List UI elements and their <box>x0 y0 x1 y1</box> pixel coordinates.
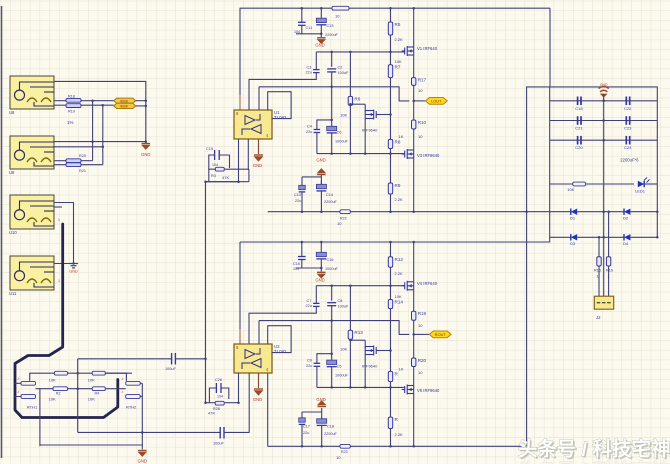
wire cap bank center vertical <box>603 94 605 300</box>
svg-text:1: 1 <box>58 279 60 283</box>
svg-text:R12: R12 <box>395 257 404 262</box>
sheet border left <box>1 6 3 458</box>
watermark text <box>518 437 670 464</box>
thermistor RT1a <box>21 381 36 385</box>
power symbol red top <box>599 87 609 92</box>
svg-text:104: 104 <box>212 163 218 167</box>
diode D2 <box>604 211 624 213</box>
thermistor RT2a <box>21 395 36 399</box>
cap bank row 3 wire <box>550 139 658 141</box>
wire C2 column down <box>331 87 333 127</box>
capacitor C3 22u in series <box>315 52 317 70</box>
wire RT row1 mid <box>68 372 93 374</box>
svg-text:10: 10 <box>418 323 423 328</box>
capacitor bank C23 <box>625 116 627 125</box>
wire R17 to LOUT node <box>413 85 415 120</box>
wire V6 source to rail <box>413 394 415 446</box>
wire U2 vcc pin colored segment <box>239 329 241 344</box>
svg-text:C22: C22 <box>624 106 632 111</box>
svg-text:RTH2: RTH2 <box>126 405 137 410</box>
ground GND mid cluster <box>317 169 326 175</box>
wire node y387.4 <box>317 386 403 388</box>
wire RT network top row <box>102 372 132 374</box>
svg-text:10: 10 <box>335 14 340 19</box>
wire R19 to RN2 <box>81 104 114 106</box>
resistor RN 10K b <box>92 371 105 375</box>
wire U2 pin2 down to cap rail <box>248 373 250 432</box>
resistor R20 small <box>66 159 81 163</box>
svg-text:R23: R23 <box>341 450 348 454</box>
resistor R7 10K <box>388 65 392 78</box>
svg-text:U8: U8 <box>9 110 15 115</box>
resistor R13 10K vertical <box>348 330 352 339</box>
ground U1 GND red <box>254 155 263 161</box>
capacitor C26 feedback <box>209 388 228 403</box>
capacitor C14 2200uF <box>320 180 322 184</box>
wire U1 pin4 gnd <box>258 139 260 154</box>
wire U2 pin2 up <box>248 313 250 344</box>
svg-text:C2: C2 <box>338 66 343 70</box>
op-amp U2 TL082 <box>234 344 287 373</box>
wire V5 source down <box>364 355 366 388</box>
svg-text:C18: C18 <box>327 425 334 429</box>
wire U1 vcc pin colored segment <box>239 95 241 110</box>
svg-text:D4: D4 <box>623 241 629 246</box>
wire U2 pin4 down gnd <box>258 373 260 388</box>
svg-text:22u: 22u <box>306 364 312 368</box>
wire RT1a left leads <box>15 382 21 384</box>
wire U2 pin3 up <box>258 321 260 344</box>
svg-text:1K: 1K <box>399 134 404 139</box>
capacitor bank C18 <box>577 97 579 106</box>
wire V2 drain link <box>350 103 365 105</box>
svg-text:C4: C4 <box>307 125 312 129</box>
svg-text:TL082: TL082 <box>274 115 287 120</box>
svg-text:10K: 10K <box>395 294 402 299</box>
capacitor C6 1000uF electrolytic <box>327 126 337 130</box>
svg-text:GND: GND <box>138 459 147 464</box>
wire opto2 second <box>54 146 103 148</box>
capacitor bank C22 <box>625 97 627 106</box>
second rail wire <box>240 241 550 243</box>
capacitor C16 electrolytic <box>320 242 322 252</box>
capacitor C2 100uF in series <box>331 52 333 67</box>
svg-text:400K: 400K <box>120 105 129 109</box>
wire V1 gate rail y52 <box>316 51 404 53</box>
svg-text:GND: GND <box>141 152 150 157</box>
resistor R15b 1K <box>388 371 392 381</box>
svg-text:10K: 10K <box>88 378 95 383</box>
svg-text:104: 104 <box>217 395 223 399</box>
wire rail corner down to U1 <box>239 8 241 110</box>
resistor R18 small <box>66 98 81 102</box>
resistor RN 10K a <box>54 371 67 375</box>
wire RN to vertical <box>136 100 146 102</box>
svg-text:R18: R18 <box>68 95 75 99</box>
wire opto4 top <box>54 263 74 265</box>
wire U1 pin3 up <box>258 87 260 110</box>
wire V4 drain to rail2 <box>413 242 415 282</box>
capacitor C13 electrolytic 2200uF <box>320 8 322 18</box>
svg-text:10K: 10K <box>340 347 347 352</box>
svg-text:C6: C6 <box>337 131 342 135</box>
svg-text:C18: C18 <box>575 106 583 111</box>
net label ROUT <box>414 333 429 335</box>
ground dark opto3 <box>69 264 78 268</box>
svg-text:GND: GND <box>69 270 78 274</box>
svg-text:R13: R13 <box>354 330 363 335</box>
wire feedback2 long y320.6 <box>259 320 399 322</box>
resistor R21 small <box>66 163 81 167</box>
svg-text:100uF: 100uF <box>213 442 224 446</box>
svg-text:R8: R8 <box>395 139 401 144</box>
wire C9 top link <box>317 353 332 355</box>
wire R9 to rail <box>390 194 392 212</box>
resistor R8 1K <box>388 139 392 148</box>
svg-text:C19: C19 <box>206 147 213 151</box>
op-amp U1 TL082 <box>234 110 287 139</box>
svg-text:R20: R20 <box>79 154 86 158</box>
wire opto2 top long <box>54 141 146 143</box>
resistor R6 10K vertical <box>348 96 352 105</box>
svg-text:R2: R2 <box>56 392 61 396</box>
svg-text:R20: R20 <box>418 358 427 363</box>
resistor R9 2.2K lower <box>388 183 392 194</box>
wire cap bottom to U2 pin <box>224 431 249 433</box>
wire R6 feed <box>349 52 351 97</box>
wire opto1 top to gnd corner <box>54 81 146 141</box>
resistor R1 1R series top rail <box>332 6 349 10</box>
svg-text:R15: R15 <box>594 269 601 273</box>
wire R12 down <box>390 267 392 299</box>
svg-text:J2: J2 <box>596 315 601 320</box>
wire V4 gate rail y285.7 <box>316 285 404 287</box>
wire feedback long y86.8 <box>259 86 399 88</box>
svg-text:R16: R16 <box>606 269 613 273</box>
resistor R12 2.2K <box>390 242 392 257</box>
wire R18 to RN1 <box>81 100 114 102</box>
svg-text:10: 10 <box>418 88 423 93</box>
wire R5 to R7 <box>390 35 392 65</box>
svg-text:2200uF: 2200uF <box>324 432 338 436</box>
wire V1 source down <box>413 55 415 78</box>
wire opto2 emitters <box>54 160 66 162</box>
wire vertical R19 chain down <box>102 106 104 165</box>
svg-text:U10: U10 <box>9 230 17 235</box>
wire C15 C16 bottoms <box>296 267 321 269</box>
resistor RN1 400K yellow <box>114 98 136 103</box>
optocoupler U10 <box>9 195 54 235</box>
svg-text:LED1: LED1 <box>635 189 646 194</box>
svg-text:1000uF: 1000uF <box>335 374 349 378</box>
svg-text:GND: GND <box>315 278 324 283</box>
ground GND opto right <box>142 144 151 150</box>
mid rail wire <box>268 211 340 213</box>
capacitor bank C24 <box>625 136 627 145</box>
wire U2 pin3 down to rail <box>267 373 269 446</box>
svg-text:2.2K: 2.2K <box>395 432 404 437</box>
resistor R16b 2.2K <box>388 417 392 428</box>
ground GND top filter <box>320 34 322 37</box>
svg-text:R7: R7 <box>395 65 401 70</box>
svg-text:47K: 47K <box>208 411 215 416</box>
bottom negative rail <box>268 445 340 447</box>
capacitor C7 22u in series <box>315 286 317 304</box>
resistor R19 small <box>66 104 81 108</box>
wire R16b to rail <box>390 429 392 446</box>
thermistor RT2b right <box>126 395 141 399</box>
svg-text:-t: -t <box>17 390 19 394</box>
svg-text:22u: 22u <box>306 304 312 308</box>
svg-text:400K: 400K <box>120 99 129 103</box>
svg-text:100uF: 100uF <box>338 71 349 75</box>
wire V2 source down <box>364 119 366 154</box>
wire R6 bottom to node <box>349 105 351 153</box>
cap bank bottom jog <box>527 237 550 242</box>
connector J2 speaker <box>594 296 613 309</box>
resistor R19b 0.1 <box>412 311 416 320</box>
wire feedback2 node <box>206 402 216 404</box>
capacitor C5 1000uF electrolytic <box>327 360 337 364</box>
mosfet V5 IRF9640 mirrored <box>365 346 379 356</box>
wire V1 drain to rail <box>413 8 415 47</box>
svg-text:22u: 22u <box>303 431 309 435</box>
mosfet V2 IRF9640 mirrored <box>365 110 379 120</box>
svg-text:TL082: TL082 <box>274 349 287 354</box>
capacitor C31 100uF series bottom <box>219 427 221 439</box>
svg-text:R19: R19 <box>418 311 427 316</box>
svg-text:V3 IRF9640: V3 IRF9640 <box>417 153 440 158</box>
svg-text:C5: C5 <box>337 365 342 369</box>
svg-text:C17: C17 <box>303 425 310 429</box>
wire V6 gate net <box>403 386 405 388</box>
svg-text:10K: 10K <box>88 397 95 402</box>
svg-text:C9: C9 <box>307 359 312 363</box>
svg-text:1000uF: 1000uF <box>325 267 339 271</box>
resistor R17 0.1 <box>412 78 416 86</box>
capacitor C19 feedback <box>209 155 230 182</box>
svg-text:R14: R14 <box>395 300 404 305</box>
svg-text:22u: 22u <box>295 199 301 203</box>
svg-text:-t: -t <box>121 377 123 381</box>
wire opto3 stub <box>54 206 62 208</box>
svg-text:C24: C24 <box>624 145 632 150</box>
wire U1 pin3 down <box>247 139 249 170</box>
svg-text:2200uF: 2200uF <box>325 33 339 37</box>
svg-text:D3: D3 <box>570 241 576 246</box>
svg-text:C16: C16 <box>327 258 334 262</box>
ground U2 GND red <box>254 389 263 395</box>
svg-text:2200uF: 2200uF <box>324 200 338 204</box>
svg-text:10K: 10K <box>49 378 56 383</box>
optocoupler U8 top <box>9 76 54 115</box>
wire V2 gate to divider <box>376 114 390 116</box>
capacitor bank C20 <box>577 136 579 145</box>
resistor R15 <box>597 257 601 266</box>
diode D1 <box>550 211 571 213</box>
resistor R5 2.2K <box>390 8 392 22</box>
resistor R14 10K <box>388 300 392 309</box>
svg-text:R4: R4 <box>95 392 100 396</box>
wire top rail <box>240 7 550 9</box>
wire C8 column down <box>331 321 333 361</box>
wire inverting input2 y313 <box>249 312 316 314</box>
svg-text:10: 10 <box>418 370 423 375</box>
wire R16 feed <box>608 212 610 257</box>
svg-text:V4 IRF640: V4 IRF640 <box>417 281 438 286</box>
wire U1 pin1 down to feedback <box>206 139 239 182</box>
wire R13 feed <box>349 286 351 331</box>
optocoupler U9 <box>9 136 54 175</box>
capacitor C15 filter <box>301 242 303 257</box>
svg-text:R9: R9 <box>395 183 401 188</box>
svg-text:R21: R21 <box>79 169 86 173</box>
svg-text:1: 1 <box>597 275 599 279</box>
wire V4 source down <box>413 290 415 311</box>
svg-text:R19: R19 <box>68 110 75 114</box>
thick bus wire from opto3 <box>15 224 118 418</box>
optocoupler U11 <box>9 256 54 296</box>
wire opto1 emitter1 <box>54 100 66 102</box>
bottom negative rail left segment <box>40 444 142 446</box>
svg-text:C3: C3 <box>307 66 312 70</box>
wire R15 feed <box>598 237 600 256</box>
resistor R20b 0.1 <box>412 358 416 367</box>
wire opto1 emitter2 <box>54 104 66 106</box>
wire U1 output loop to pin6 <box>268 92 291 119</box>
svg-text:-t: -t <box>121 390 123 394</box>
wire R19b to ROUT <box>413 320 415 358</box>
wire 100uF bottom feed <box>78 431 221 433</box>
wire U2 output loop to pin6 <box>268 326 291 353</box>
svg-text:C11: C11 <box>306 26 313 30</box>
svg-text:R3: R3 <box>211 174 216 178</box>
svg-text:RTH1: RTH1 <box>27 405 38 410</box>
svg-text:2.2K: 2.2K <box>395 37 404 42</box>
svg-text:头条号 / 科技宅神: 头条号 / 科技宅神 <box>518 437 670 460</box>
svg-text:2.2K: 2.2K <box>395 271 404 276</box>
svg-text:2200uF*6: 2200uF*6 <box>620 158 639 163</box>
wire inverting input y79 <box>249 78 316 80</box>
wire U1 pin2 up <box>248 79 250 110</box>
mosfet V6 IRF9640 <box>402 385 414 395</box>
wire V3 gate net <box>403 153 405 155</box>
wire V5 drain link <box>350 339 365 341</box>
wire network to bottom rail left <box>39 389 41 446</box>
wire R14 down <box>390 309 392 372</box>
capacitor C18 2200uF <box>317 419 327 423</box>
wire row1 right corner <box>105 373 126 380</box>
resistor R28 47K feedback2 <box>215 401 224 405</box>
svg-text:10K: 10K <box>49 397 56 402</box>
wire feedback drop to LOUT node <box>399 87 409 101</box>
svg-text:GND: GND <box>253 163 262 168</box>
svg-text:C26: C26 <box>215 378 222 382</box>
cap bank row 1 wire <box>550 100 658 102</box>
svg-text:100uF: 100uF <box>165 367 176 371</box>
svg-text:10K: 10K <box>340 113 347 118</box>
wire rail2 corner down to U2 <box>239 242 241 344</box>
wire C4 top link <box>317 119 332 121</box>
svg-text:1000uF: 1000uF <box>335 140 349 144</box>
svg-text:10: 10 <box>337 221 342 226</box>
resistor R23 1R series bottom rail <box>340 444 350 448</box>
svg-text:头条号 / 科技宅神: 头条号 / 科技宅神 <box>518 460 670 464</box>
svg-text:U11: U11 <box>9 291 17 296</box>
svg-text:10K: 10K <box>567 187 574 192</box>
wire V5 gate to divider <box>376 350 390 352</box>
wire U2 pin1 down to feedback <box>238 373 240 403</box>
svg-text:10: 10 <box>336 455 341 460</box>
wire feedback2 drop to ROUT node <box>399 321 409 335</box>
wire 100uF top feed <box>78 358 172 360</box>
svg-text:R6: R6 <box>354 96 360 101</box>
wire cap to vert205 <box>175 358 205 360</box>
wire V4 gate <box>404 285 406 287</box>
mosfet V1 IRF640 <box>402 46 414 56</box>
wire R8 down <box>390 149 392 184</box>
diode D4 <box>604 236 624 238</box>
svg-text:C7: C7 <box>307 299 312 303</box>
wire R15b down <box>390 382 392 418</box>
wire R20b to V6 <box>413 367 415 386</box>
svg-text:V1 IRF640: V1 IRF640 <box>417 46 438 51</box>
svg-text:1%: 1% <box>67 120 73 125</box>
wire C10 C14 tops <box>302 176 321 178</box>
resistor R10 0.1 <box>412 120 416 129</box>
svg-text:R22: R22 <box>340 217 347 221</box>
wire C11 C13 bottoms <box>296 33 321 35</box>
capacitor C11 filter <box>301 8 303 22</box>
capacitor C4 22u <box>314 129 321 131</box>
cap bank inner left edge <box>549 87 551 237</box>
wire row1 left corner <box>30 373 55 380</box>
mosfet V3 IRF9640 <box>402 149 414 159</box>
svg-text:-t: -t <box>17 377 19 381</box>
diode LED1 <box>638 181 644 187</box>
svg-text:C20: C20 <box>575 145 583 150</box>
wire R15 down to connector <box>598 266 600 300</box>
resistor RN2 400K yellow <box>114 103 136 108</box>
wire opto3 to gnd <box>54 203 74 264</box>
thermistor RT1b right <box>126 381 141 385</box>
wire V3 source to rail <box>413 158 415 212</box>
wire R7 down <box>390 78 392 140</box>
wire gnd cluster bottom <box>317 401 326 407</box>
mosfet V4 IRF640 <box>402 281 414 291</box>
cap bank row 2 wire <box>550 120 658 122</box>
svg-text:GND: GND <box>600 83 608 87</box>
svg-text:C8: C8 <box>338 299 343 303</box>
svg-text:C10: C10 <box>294 193 301 197</box>
resistor R24 10K led row <box>550 183 573 185</box>
wire vertical mid net <box>77 359 79 433</box>
svg-text:D2: D2 <box>623 216 629 221</box>
wire network lower right vert <box>141 383 143 449</box>
ground GND filter2 <box>320 268 322 272</box>
svg-text:GND: GND <box>253 397 262 402</box>
net label LOUT <box>414 100 425 102</box>
capacitor C9 22u <box>314 362 321 364</box>
wire vertical R18 chain down <box>92 100 94 160</box>
wire feedback node <box>204 180 207 183</box>
svg-text:GND: GND <box>316 158 325 163</box>
wire R20 R21 right <box>81 160 93 162</box>
wire top rail corner down right <box>549 8 551 87</box>
cap bank left outer vertical <box>526 87 528 446</box>
resistor R22 1R mid rail <box>340 210 350 214</box>
resistor R4 10K <box>92 387 105 391</box>
